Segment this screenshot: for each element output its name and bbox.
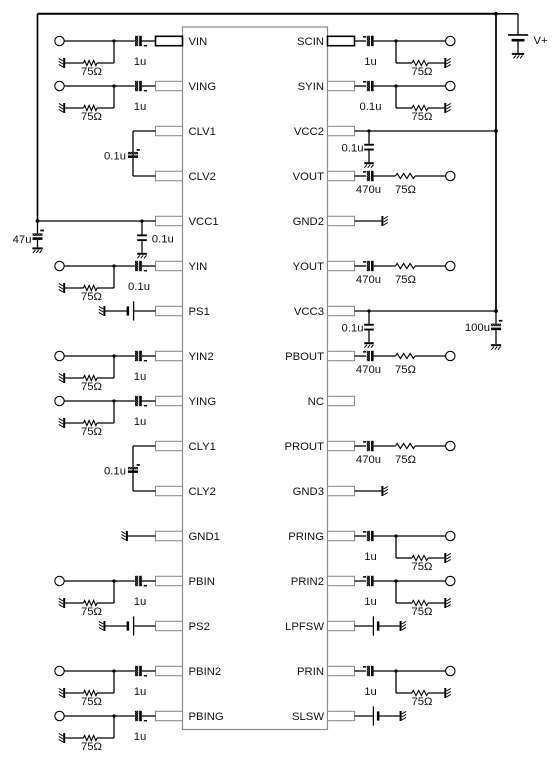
wire: [395, 581, 397, 603]
connector output (row y=356): [446, 351, 455, 360]
resistor 75Ω (right row y=176): [396, 173, 416, 178]
pin label CLY1: [189, 441, 216, 453]
wire: [114, 715, 135, 717]
wire: [374, 85, 396, 87]
wire: [355, 175, 367, 177]
wire: [97, 602, 114, 604]
capacitor 0.1u (VCC3): [364, 324, 374, 331]
label 470u: [356, 274, 381, 286]
svg-text:1u: 1u: [134, 596, 147, 608]
svg-text:75Ω: 75Ω: [411, 606, 432, 618]
svg-text:CLV1: CLV1: [189, 126, 216, 138]
svg-text:470u: 470u: [356, 364, 381, 376]
junction: [112, 354, 115, 357]
label 0.1u: [104, 466, 126, 478]
label 1u: [134, 596, 147, 608]
label 75Ω: [81, 66, 102, 78]
wire: [395, 41, 397, 63]
wire: [113, 401, 115, 423]
pin box PROUT: [328, 441, 355, 450]
wire: [374, 445, 396, 447]
label 75Ω: [81, 741, 102, 753]
label 75Ω: [411, 111, 432, 123]
svg-text:0.1u: 0.1u: [128, 281, 150, 293]
junction: [394, 39, 397, 42]
ground: [444, 103, 450, 113]
wire: [97, 62, 114, 64]
wire: [428, 557, 444, 559]
svg-text:75Ω: 75Ω: [81, 111, 102, 123]
wire: [355, 625, 374, 627]
junction: [112, 714, 115, 717]
pin box YIN2: [156, 351, 183, 360]
label 0.1u: [360, 101, 382, 113]
svg-text:SCIN: SCIN: [297, 36, 324, 48]
svg-text:V+: V+: [534, 35, 549, 47]
capacitor 1u (left row y=716): [135, 711, 147, 722]
svg-text:VCC3: VCC3: [294, 306, 324, 318]
svg-text:75Ω: 75Ω: [395, 454, 416, 466]
wire: [355, 85, 367, 87]
svg-text:PBIN2: PBIN2: [189, 666, 222, 678]
junction: [112, 399, 115, 402]
connector output (row y=581): [446, 576, 455, 585]
capacitor 0.1u (VCC1): [137, 234, 147, 241]
wire: [368, 149, 370, 162]
wire: [379, 625, 399, 627]
pin label NC: [308, 396, 324, 408]
wire: [374, 670, 396, 672]
label 75Ω: [395, 364, 416, 376]
svg-text:PBIN: PBIN: [189, 576, 215, 588]
wire: [374, 535, 396, 537]
svg-text:1u: 1u: [364, 56, 377, 68]
svg-text:SYIN: SYIN: [298, 81, 324, 93]
wire: [37, 240, 39, 248]
pin label PBIN: [189, 576, 215, 588]
wire to V+ source: [496, 13, 518, 15]
pin box PRIN2: [328, 576, 355, 585]
pin label GND2: [293, 216, 324, 228]
pin label LPFSW: [285, 621, 324, 633]
svg-text:0.1u: 0.1u: [342, 142, 364, 154]
connector input (row y=716): [55, 711, 64, 720]
wire: [114, 670, 135, 672]
pin label YIN2: [189, 351, 214, 363]
wire V+ right bus: [495, 14, 497, 311]
svg-text:PBOUT: PBOUT: [285, 351, 324, 363]
capacitor 1u (left row y=86): [135, 81, 147, 92]
svg-text:CLY2: CLY2: [189, 486, 216, 498]
wire: [113, 671, 115, 693]
label 0.1u: [104, 151, 126, 163]
svg-text:YING: YING: [189, 396, 217, 408]
pin box PBING: [156, 711, 183, 720]
svg-text:LPFSW: LPFSW: [285, 621, 324, 633]
junction bus: [494, 129, 498, 133]
svg-text:VIN: VIN: [189, 36, 208, 48]
pin label SCIN: [297, 36, 324, 48]
wire: [114, 85, 135, 87]
label 0.1u: [342, 322, 364, 334]
capacitor 470u (right row y=356): [363, 351, 374, 361]
wire: [374, 175, 396, 177]
wire: [128, 535, 156, 537]
svg-text:1u: 1u: [134, 56, 147, 68]
wire: [141, 241, 143, 253]
ground (SLSW): [400, 711, 406, 721]
pin label CLV1: [189, 126, 216, 138]
label 47u: [13, 234, 32, 246]
wire: [133, 175, 156, 177]
capacitor 470u (right row y=266): [363, 261, 374, 271]
pin label YOUT: [293, 261, 324, 273]
connector output (row y=176): [446, 171, 455, 180]
pin box SYIN: [328, 81, 355, 90]
capacitor 0.1u (pair rows 131/176): [128, 149, 140, 158]
svg-text:75Ω: 75Ω: [81, 696, 102, 708]
label 1u: [134, 101, 147, 113]
wire VCC3 feed: [355, 310, 497, 312]
wire: [368, 329, 370, 342]
junction: [112, 669, 115, 672]
ground (PS1): [99, 306, 105, 316]
label 75Ω: [81, 696, 102, 708]
wire: [374, 355, 396, 357]
pin box PRIN: [328, 666, 355, 675]
svg-text:1u: 1u: [364, 551, 377, 563]
label V+: [534, 35, 549, 47]
wire: [517, 42, 519, 53]
wire: [355, 535, 367, 537]
resistor 75Ω (left row y=581): [84, 600, 98, 605]
wire: [97, 692, 114, 694]
svg-text:1u: 1u: [134, 416, 147, 428]
label 75Ω: [81, 381, 102, 393]
label 75Ω: [411, 606, 432, 618]
svg-text:75Ω: 75Ω: [81, 291, 102, 303]
resistor 75Ω (left row y=41): [84, 60, 98, 65]
wire: [37, 221, 39, 233]
wire: [64, 85, 114, 87]
ground: [59, 373, 65, 383]
wire: [65, 737, 83, 739]
pin box YIN: [156, 261, 183, 270]
wire: [97, 287, 114, 289]
wire: [396, 107, 412, 109]
svg-text:PRING: PRING: [288, 531, 324, 543]
wire: [97, 737, 114, 739]
pin label SYIN: [298, 81, 324, 93]
wire: [396, 602, 412, 604]
junction 0.1u tap: [367, 129, 370, 132]
junction 0.1u tap: [367, 309, 370, 312]
svg-text:NC: NC: [308, 396, 324, 408]
pin label YIN: [189, 261, 208, 273]
wire: [415, 355, 446, 357]
capacitor 1u (left row y=356): [135, 351, 147, 362]
wire: [113, 86, 115, 108]
svg-text:PS1: PS1: [189, 306, 210, 318]
wire: [65, 602, 83, 604]
wire: [65, 62, 83, 64]
wire: [64, 40, 114, 42]
wire: [114, 265, 135, 267]
wire: [65, 287, 83, 289]
wire: [105, 625, 126, 627]
connector output (row y=86): [446, 81, 455, 90]
svg-text:75Ω: 75Ω: [81, 381, 102, 393]
wire: [428, 62, 444, 64]
label 470u: [356, 364, 381, 376]
pin label SLSW: [292, 711, 324, 723]
wire: [65, 107, 83, 109]
svg-text:75Ω: 75Ω: [81, 606, 102, 618]
label 75Ω: [395, 184, 416, 196]
ground (PS2): [99, 621, 105, 631]
ground (VCC2 0.1u): [364, 162, 373, 168]
wire: [355, 40, 367, 42]
svg-text:0.1u: 0.1u: [360, 101, 382, 113]
wire: [396, 692, 412, 694]
label 1u: [134, 686, 147, 698]
svg-text:CLV2: CLV2: [189, 171, 216, 183]
connector input (row y=401): [55, 396, 64, 405]
pin label PRIN2: [291, 576, 324, 588]
label 75Ω: [81, 606, 102, 618]
pin box VIN: [156, 36, 183, 45]
label 75Ω: [81, 111, 102, 123]
resistor 75Ω (right row y=581): [412, 600, 428, 605]
svg-text:1u: 1u: [134, 731, 147, 743]
pin box PBOUT: [328, 351, 355, 360]
svg-text:1u: 1u: [134, 371, 147, 383]
resistor 75Ω (left row y=401): [84, 420, 98, 425]
wire: [395, 86, 397, 108]
ground (GND1): [122, 531, 128, 541]
svg-text:YIN: YIN: [189, 261, 208, 273]
label 75Ω: [411, 561, 432, 573]
wire: [114, 355, 135, 357]
pin box VCC2: [328, 126, 355, 135]
label 0.1u: [128, 281, 150, 293]
label 75Ω: [395, 274, 416, 286]
pin label PS2: [189, 621, 210, 633]
wire: [64, 400, 114, 402]
wire: [396, 85, 446, 87]
svg-text:47u: 47u: [13, 234, 32, 246]
wire: [114, 580, 135, 582]
connector output (row y=446): [446, 441, 455, 450]
wire: [105, 310, 126, 312]
capacitor 470u (right row y=176): [363, 171, 374, 181]
wire: [395, 671, 397, 693]
wire: [134, 310, 155, 312]
pin label VCC1: [189, 216, 219, 228]
pin label PS1: [189, 306, 210, 318]
pin box CLY2: [156, 486, 183, 495]
ground: [444, 598, 450, 608]
wire: [114, 40, 135, 42]
svg-text:CLY1: CLY1: [189, 441, 216, 453]
resistor 75Ω (right row y=356): [396, 353, 416, 358]
capacitor 1u (left row y=581): [135, 576, 147, 587]
ground: [59, 688, 65, 698]
pin box GND2: [328, 216, 355, 225]
wire: [64, 670, 114, 672]
wire: [132, 446, 134, 491]
wire: [415, 265, 446, 267]
wire: [396, 62, 412, 64]
wire: [355, 220, 382, 222]
label 75Ω: [395, 454, 416, 466]
pin box PBIN: [156, 576, 183, 585]
ground (GND2): [381, 216, 387, 226]
pin label PRIN: [297, 666, 324, 678]
connector output (row y=41): [446, 36, 455, 45]
pin label VING: [189, 81, 217, 93]
label 1u: [364, 551, 377, 563]
svg-text:PRIN: PRIN: [297, 666, 324, 678]
svg-text:YIN2: YIN2: [189, 351, 214, 363]
svg-text:GND1: GND1: [189, 531, 220, 543]
svg-text:SLSW: SLSW: [292, 711, 324, 723]
svg-text:VCC2: VCC2: [294, 126, 324, 138]
wire: [113, 41, 115, 63]
connector input (row y=266): [55, 261, 64, 270]
ground (100u): [491, 344, 501, 350]
wire: [113, 581, 115, 603]
wire: [395, 536, 397, 558]
ground: [59, 103, 65, 113]
wire: [396, 535, 446, 537]
svg-text:75Ω: 75Ω: [411, 561, 432, 573]
battery bias source PS2: [127, 616, 134, 635]
svg-text:470u: 470u: [356, 184, 381, 196]
connector output (row y=671): [446, 666, 455, 675]
pin box VING: [156, 81, 183, 90]
pin label YING: [189, 396, 217, 408]
ground: [444, 688, 450, 698]
resistor 75Ω (right row y=266): [396, 263, 416, 268]
pin label GND1: [189, 531, 220, 543]
wire: [355, 715, 374, 717]
svg-text:VCC1: VCC1: [189, 216, 219, 228]
svg-text:75Ω: 75Ω: [395, 184, 416, 196]
pin label VOUT: [293, 171, 324, 183]
pin box PRING: [328, 531, 355, 540]
resistor 75Ω (right row y=41): [412, 60, 428, 65]
svg-text:GND2: GND2: [293, 216, 324, 228]
label 1u: [134, 56, 147, 68]
svg-text:75Ω: 75Ω: [411, 111, 432, 123]
wire: [142, 85, 156, 87]
wire: [132, 131, 134, 176]
label 75Ω: [81, 291, 102, 303]
junction: [112, 39, 115, 42]
resistor 75Ω (right row y=446): [396, 443, 416, 448]
label 1u: [364, 56, 377, 68]
pin label VCC3: [294, 306, 324, 318]
wire: [374, 265, 396, 267]
wire: [65, 692, 83, 694]
svg-text:75Ω: 75Ω: [411, 696, 432, 708]
wire: [97, 107, 114, 109]
svg-text:0.1u: 0.1u: [342, 322, 364, 334]
wire: [142, 670, 156, 672]
wire: [142, 400, 156, 402]
pin box PBIN2: [156, 666, 183, 675]
ground: [59, 283, 65, 293]
connector input (row y=86): [55, 81, 64, 90]
wire: [428, 692, 444, 694]
wire: [396, 40, 446, 42]
wire: [374, 580, 396, 582]
pin label PBIN2: [189, 666, 222, 678]
ground (VCC1 0.1u): [137, 253, 147, 258]
pin box CLY1: [156, 441, 183, 450]
ground: [59, 58, 65, 68]
junction: [394, 579, 397, 582]
ground (47u): [32, 247, 42, 253]
pin box SLSW: [328, 711, 355, 720]
svg-text:PS2: PS2: [189, 621, 210, 633]
junction: [112, 84, 115, 87]
label 1u: [364, 686, 377, 698]
resistor 75Ω (right row y=86): [412, 105, 428, 110]
svg-text:75Ω: 75Ω: [81, 741, 102, 753]
ground: [59, 733, 65, 743]
junction: [112, 579, 115, 582]
label 0.1u: [152, 233, 174, 245]
resistor 75Ω (left row y=266): [84, 285, 98, 290]
wire: [133, 445, 156, 447]
wire: [133, 490, 156, 492]
svg-text:1u: 1u: [134, 101, 147, 113]
svg-text:75Ω: 75Ω: [395, 364, 416, 376]
wire: [368, 131, 370, 144]
capacitor 0.1u (VCC2): [364, 144, 374, 151]
wire: [142, 265, 156, 267]
svg-text:1u: 1u: [364, 596, 377, 608]
pin box PS2: [156, 621, 183, 630]
capacitor C 47u: [33, 230, 44, 240]
label 1u: [134, 731, 147, 743]
label 75Ω: [411, 696, 432, 708]
wire: [428, 107, 444, 109]
wire V+ left rail: [37, 14, 39, 221]
wire: [134, 625, 155, 627]
ground: [444, 58, 450, 68]
wire VCC2 feed: [355, 130, 497, 132]
svg-text:PRIN2: PRIN2: [291, 576, 324, 588]
capacitor 1u (left row y=671): [135, 666, 147, 677]
capacitor 1u (left row y=401): [135, 396, 147, 407]
wire: [396, 580, 446, 582]
wire: [142, 715, 156, 717]
svg-text:GND3: GND3: [293, 486, 324, 498]
wire: [374, 40, 396, 42]
op IC U1 body: [183, 27, 328, 730]
pin box SCIN: [328, 36, 355, 45]
ground (LPFSW): [400, 621, 406, 631]
ground (VCC3 0.1u): [364, 342, 373, 348]
wire: [113, 266, 115, 288]
connector output (row y=266): [446, 261, 455, 270]
battery bias source PS1: [127, 301, 134, 320]
capacitor 0.1u (left row y=266): [135, 261, 147, 272]
connector input (row y=581): [55, 576, 64, 585]
